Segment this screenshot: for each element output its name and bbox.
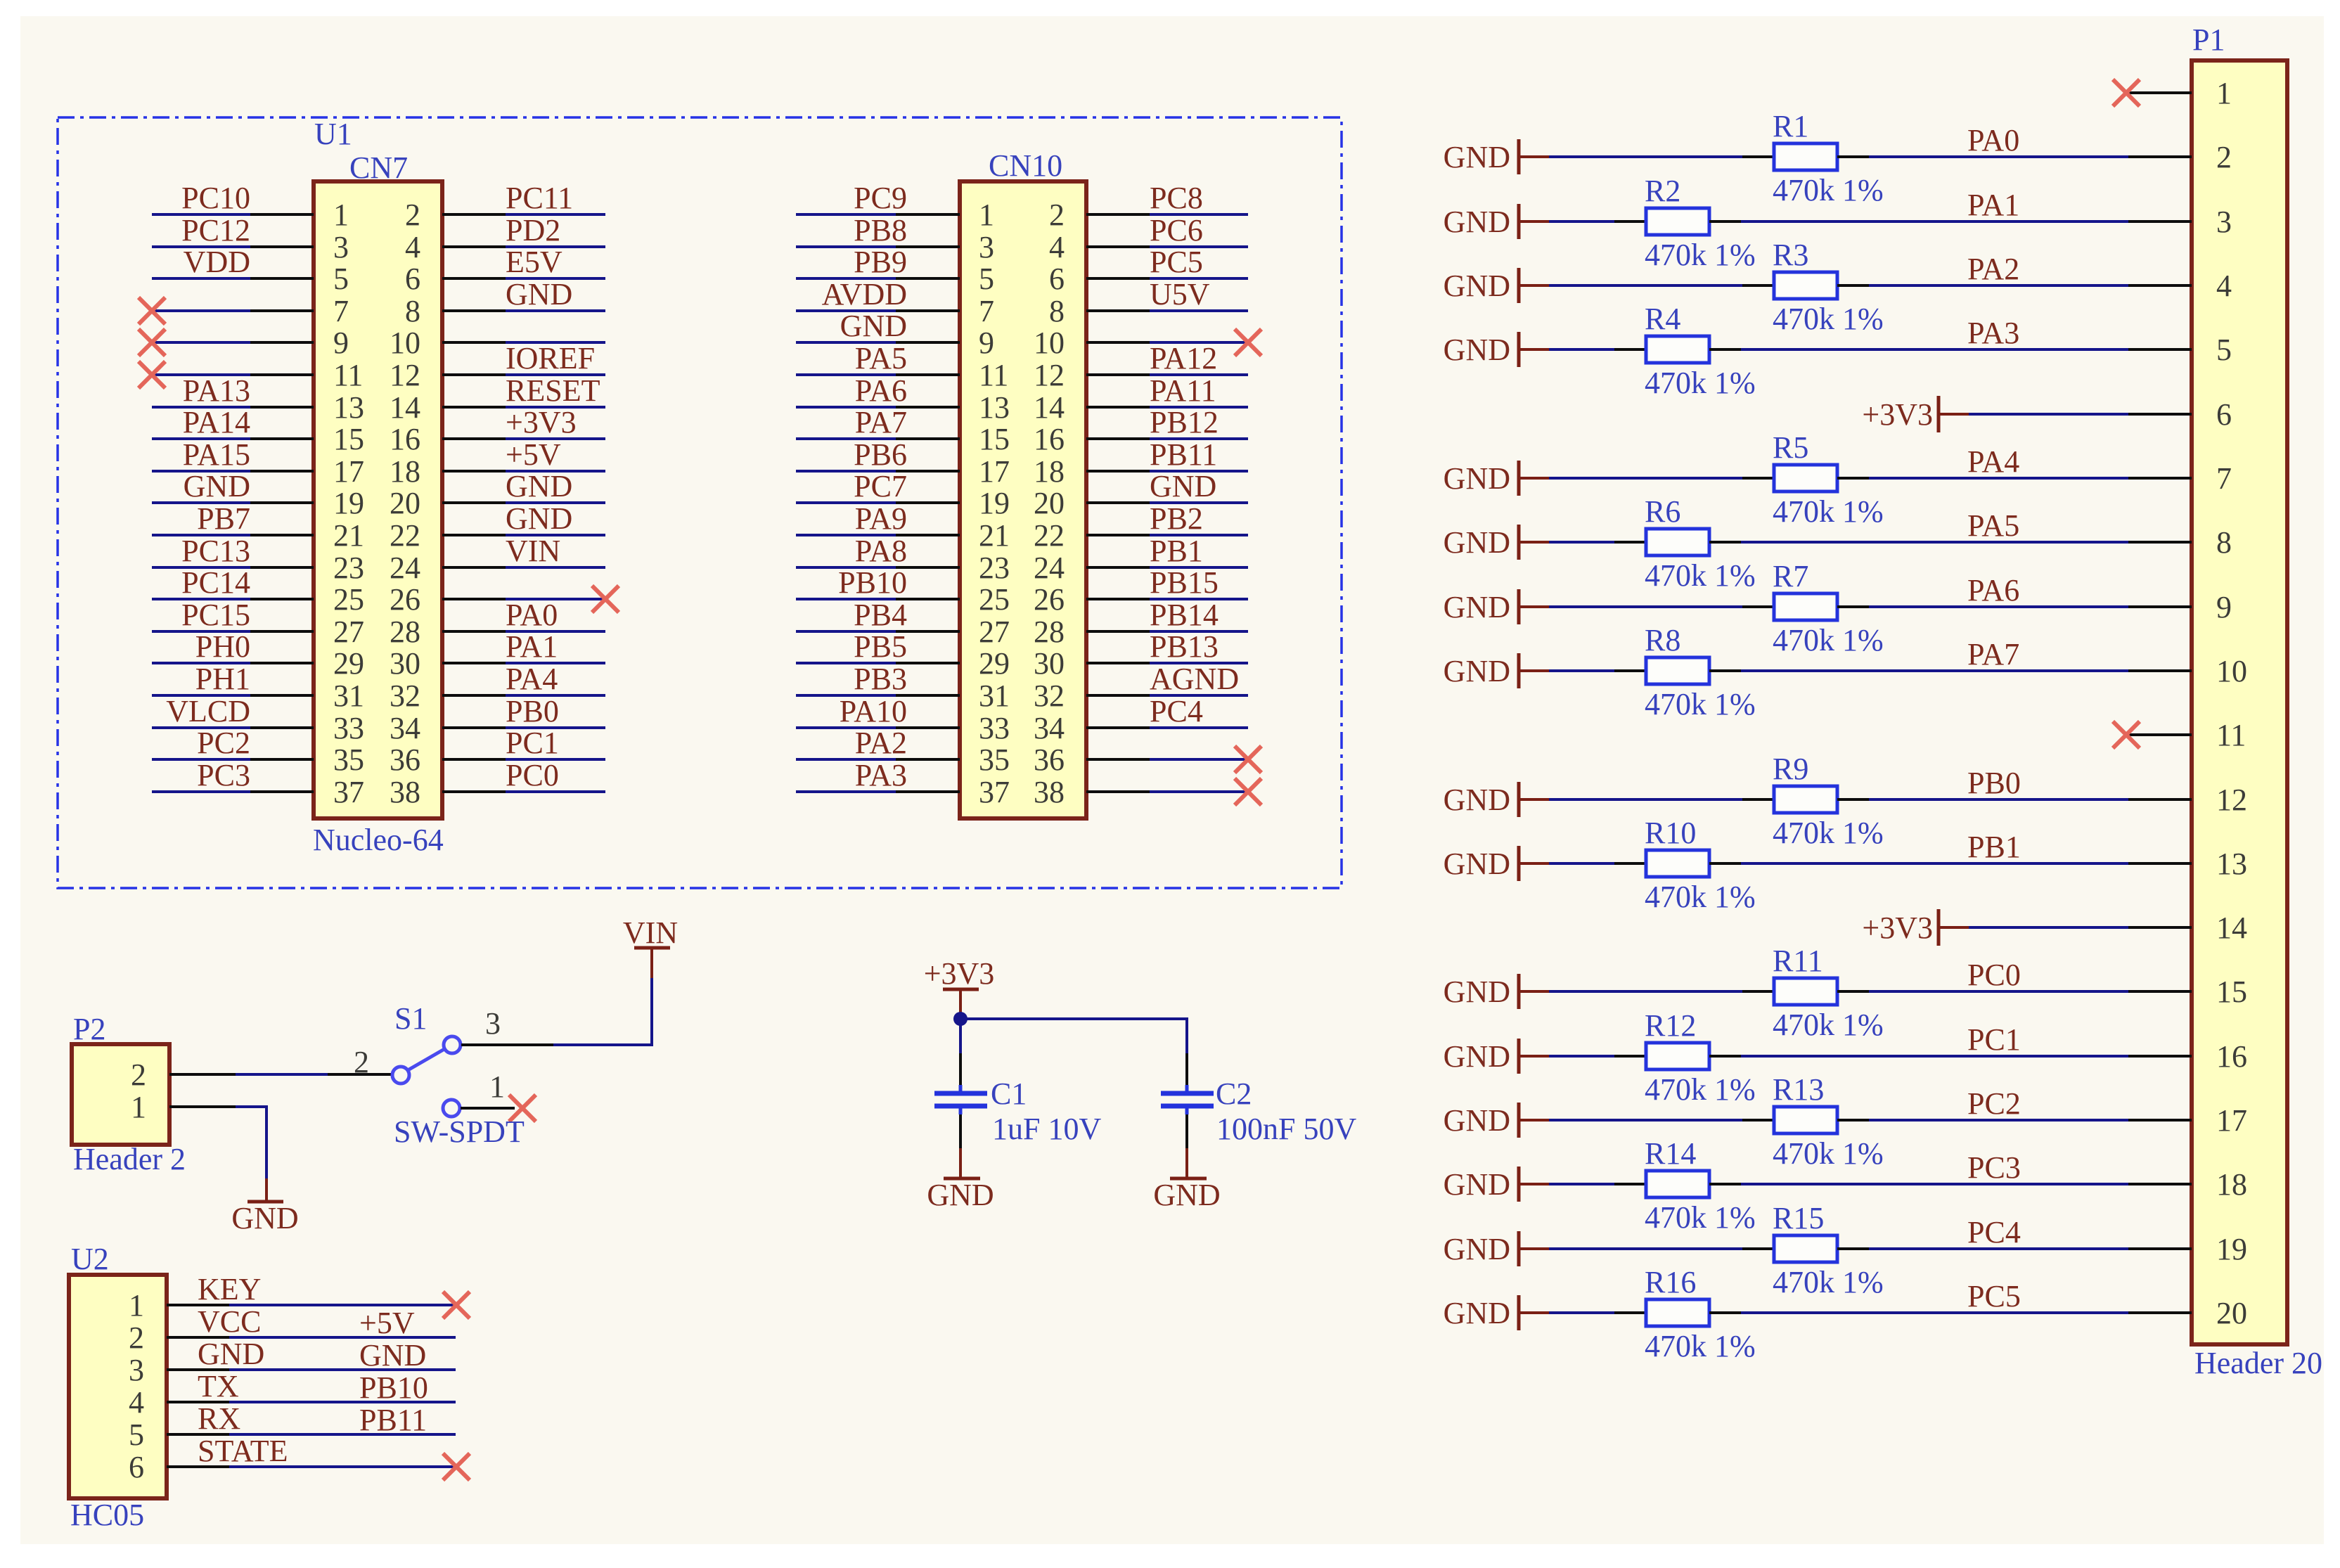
svg-text:PA11: PA11 (1150, 373, 1216, 408)
svg-text:35: 35 (979, 743, 1010, 777)
ground symbol row pin 16 (1444, 1039, 1549, 1074)
svg-text:R12: R12 (1645, 1008, 1696, 1043)
svg-text:9: 9 (333, 326, 349, 360)
CN7 pin 36 wire net PC1 (390, 726, 605, 777)
svg-text:18: 18 (1034, 454, 1065, 489)
svg-text:Header 2: Header 2 (73, 1142, 186, 1176)
svg-text:S1: S1 (394, 1001, 427, 1036)
svg-text:30: 30 (1034, 646, 1065, 681)
svg-text:U5V: U5V (1150, 277, 1210, 311)
svg-text:18: 18 (2216, 1167, 2247, 1202)
P1 pin 19 (2128, 1232, 2247, 1266)
svg-text:470k 1%: 470k 1% (1645, 366, 1756, 400)
svg-text:R9: R9 (1773, 752, 1808, 786)
svg-text:38: 38 (390, 775, 420, 809)
header P1 body (2192, 60, 2287, 1344)
svg-text:5: 5 (2216, 333, 2232, 367)
svg-text:28: 28 (390, 615, 420, 649)
power port VIN (623, 915, 678, 978)
svg-text:29: 29 (333, 646, 364, 681)
svg-text:GND: GND (506, 277, 572, 311)
svg-text:PA10: PA10 (840, 694, 907, 728)
P1 pin 10 (2128, 654, 2247, 688)
svg-text:Header 20: Header 20 (2194, 1346, 2322, 1380)
switch S1 pin 1 (n.c.) (443, 1069, 536, 1122)
CN10 pin 20 wire net GND (1034, 469, 1248, 520)
CN7 pin 23 wire net PC13 (152, 534, 364, 585)
svg-text:+3V3: +3V3 (1862, 397, 1933, 432)
svg-text:PB9: PB9 (854, 245, 907, 279)
svg-text:R2: R2 (1645, 174, 1680, 208)
svg-text:19: 19 (979, 486, 1010, 520)
svg-text:RX: RX (198, 1401, 240, 1436)
connector CN7 body (314, 181, 442, 818)
svg-text:P2: P2 (73, 1012, 105, 1046)
junction node +3V3 (953, 1012, 967, 1026)
U2 pin 2 VCC net +5V (129, 1304, 456, 1355)
svg-text:HC05: HC05 (70, 1498, 144, 1532)
svg-text:28: 28 (1034, 615, 1065, 649)
ground symbol row pin 4 (1444, 268, 1549, 303)
svg-text:27: 27 (333, 615, 364, 649)
wire R2 to P1 pin 3 net PA1 (1741, 188, 2128, 222)
svg-text:U1: U1 (314, 117, 352, 151)
svg-text:8: 8 (2216, 525, 2232, 560)
svg-text:18: 18 (390, 454, 420, 489)
svg-text:GND: GND (1444, 654, 1510, 688)
svg-text:470k 1%: 470k 1% (1773, 1265, 1884, 1299)
P1 pin 14 (2128, 911, 2247, 945)
CN7 pin 9 wire (139, 326, 349, 360)
svg-text:PA4: PA4 (1967, 444, 2019, 479)
svg-text:14: 14 (1034, 390, 1065, 425)
svg-text:20: 20 (2216, 1296, 2247, 1330)
wire GND to R14 (1549, 1183, 1614, 1185)
svg-text:R1: R1 (1773, 109, 1808, 143)
svg-text:22: 22 (1034, 518, 1065, 553)
svg-text:AGND: AGND (1150, 662, 1239, 696)
power port +3V3 at P1 pin 14 (1862, 909, 1969, 946)
P1 pin 17 (2128, 1103, 2247, 1138)
svg-text:PC7: PC7 (854, 469, 907, 503)
svg-text:470k 1%: 470k 1% (1773, 1136, 1884, 1171)
svg-text:33: 33 (979, 711, 1010, 745)
switch S1 pin 2 (common) (328, 1045, 409, 1084)
svg-text:PB0: PB0 (506, 694, 559, 728)
svg-text:19: 19 (333, 486, 364, 520)
P1 pin 5 (2128, 333, 2232, 367)
svg-text:1: 1 (131, 1090, 146, 1124)
CN10 pin 19 wire net PC7 (796, 469, 1010, 520)
svg-text:4: 4 (405, 230, 420, 264)
resistor R3 470k 1% (1742, 238, 1884, 336)
CN10 pin 34 wire net PC4 (1034, 694, 1248, 745)
svg-text:6: 6 (2216, 397, 2232, 432)
P1 pin 12 (2128, 783, 2247, 817)
U2 pin 5 RX net PB11 (129, 1401, 456, 1452)
wire R4 to P1 pin 5 net PA3 (1741, 316, 2128, 350)
svg-text:PA7: PA7 (1967, 637, 2019, 671)
ground symbol row pin 18 (1444, 1167, 1549, 1202)
svg-text:1: 1 (2216, 76, 2232, 110)
svg-text:PB12: PB12 (1150, 405, 1219, 439)
ground symbol below P2 (231, 1178, 298, 1235)
svg-text:PC1: PC1 (1967, 1022, 2021, 1057)
P1 pin 6 (2128, 397, 2232, 432)
resistor R5 470k 1% (1742, 430, 1884, 529)
CN7 pin 20 wire net GND (390, 469, 605, 520)
CN7 pin 1 wire net PC10 (152, 181, 349, 232)
svg-text:GND: GND (1444, 1039, 1510, 1074)
svg-text:GND: GND (840, 309, 907, 343)
svg-text:PH1: PH1 (195, 662, 250, 696)
svg-text:PB11: PB11 (1150, 437, 1217, 472)
ground symbol row pin 2 (1444, 139, 1549, 174)
svg-text:7: 7 (2216, 461, 2232, 496)
wire P2 pin1 to GND (236, 1107, 266, 1178)
svg-text:16: 16 (390, 422, 420, 456)
svg-text:PA6: PA6 (855, 373, 907, 408)
wire GND to R8 (1549, 669, 1614, 672)
svg-text:R11: R11 (1773, 944, 1823, 978)
svg-text:PB1: PB1 (1150, 534, 1203, 568)
P1 pin 16 (2128, 1039, 2247, 1074)
svg-text:PA5: PA5 (1967, 508, 2019, 543)
svg-text:21: 21 (333, 518, 364, 553)
wire R5 to P1 pin 7 net PA4 (1869, 444, 2128, 479)
switch S1 lever (408, 1049, 444, 1070)
svg-text:Nucleo-64: Nucleo-64 (313, 823, 444, 857)
wire GND to R13 (1549, 1119, 1742, 1122)
svg-text:GND: GND (1444, 1296, 1510, 1330)
svg-text:GND: GND (506, 501, 572, 536)
P1 pin 4 (2128, 269, 2232, 303)
svg-text:R10: R10 (1645, 816, 1696, 850)
svg-text:12: 12 (390, 358, 420, 392)
svg-text:PC5: PC5 (1967, 1279, 2021, 1313)
svg-text:32: 32 (390, 679, 420, 713)
svg-text:PB10: PB10 (359, 1370, 428, 1405)
svg-text:7: 7 (979, 294, 994, 328)
svg-text:PB5: PB5 (854, 629, 907, 664)
svg-text:R5: R5 (1773, 430, 1808, 465)
svg-text:20: 20 (1034, 486, 1065, 520)
svg-text:470k 1%: 470k 1% (1773, 173, 1884, 207)
CN10 pin 14 wire net PA11 (1034, 373, 1248, 425)
resistor R14 470k 1% (1614, 1136, 1756, 1235)
svg-text:36: 36 (1034, 743, 1065, 777)
svg-text:PC10: PC10 (181, 181, 250, 215)
CN7 pin 14 wire net RESET (390, 373, 605, 425)
wire +3V3 to C2 (960, 1019, 1187, 1053)
wire GND to R11 (1549, 990, 1742, 993)
svg-text:2: 2 (405, 198, 420, 232)
svg-text:GND: GND (1444, 1232, 1510, 1266)
resistor R11 470k 1% (1742, 944, 1884, 1042)
svg-text:R8: R8 (1645, 623, 1680, 657)
CN7 pin 37 wire net PC3 (152, 758, 364, 809)
svg-text:PC3: PC3 (1967, 1150, 2021, 1185)
svg-text:470k 1%: 470k 1% (1645, 1072, 1756, 1107)
svg-text:PA7: PA7 (855, 405, 907, 439)
power port +3V3 at P1 pin 6 (1862, 396, 1969, 432)
svg-text:3: 3 (485, 1006, 501, 1041)
ground symbol row pin 8 (1444, 525, 1549, 560)
svg-text:35: 35 (333, 743, 364, 777)
wire GND to R16 (1549, 1311, 1614, 1314)
P1 pin 11 (2128, 718, 2246, 752)
svg-text:470k 1%: 470k 1% (1645, 1200, 1756, 1235)
svg-text:PB7: PB7 (197, 501, 250, 536)
P1 pin 8 (2128, 525, 2232, 560)
CN7 pin 26 wire (390, 582, 619, 617)
resistor R10 470k 1% (1614, 816, 1756, 914)
ground below C2 (1153, 1148, 1220, 1212)
svg-text:5: 5 (333, 262, 349, 296)
svg-text:+3V3: +3V3 (506, 405, 577, 439)
svg-text:PC2: PC2 (197, 726, 250, 760)
svg-text:25: 25 (333, 582, 364, 617)
svg-text:25: 25 (979, 582, 1010, 617)
svg-text:23: 23 (979, 551, 1010, 585)
wire R8 to P1 pin 10 net PA7 (1741, 637, 2128, 671)
wire GND to R2 (1549, 220, 1614, 223)
svg-text:13: 13 (333, 390, 364, 425)
svg-text:1: 1 (979, 198, 994, 232)
svg-text:GND: GND (1444, 783, 1510, 817)
wire GND to R15 (1549, 1247, 1742, 1250)
svg-text:PB3: PB3 (854, 662, 907, 696)
resistor R6 470k 1% (1614, 494, 1756, 593)
svg-text:20: 20 (390, 486, 420, 520)
svg-text:1uF 10V: 1uF 10V (992, 1112, 1101, 1146)
U2 pin 3 GND net GND (129, 1337, 456, 1387)
resistor R13 470k 1% (1742, 1072, 1884, 1171)
svg-text:GND: GND (1444, 333, 1510, 367)
svg-text:34: 34 (390, 711, 420, 745)
CN7 pin 10 wire (390, 326, 605, 360)
ground symbol row pin 3 (1444, 204, 1549, 239)
svg-text:GND: GND (1444, 975, 1510, 1009)
svg-text:470k 1%: 470k 1% (1773, 302, 1884, 336)
svg-text:1: 1 (129, 1288, 144, 1323)
svg-text:VIN: VIN (506, 534, 560, 568)
CN7 pin 19 wire net GND (152, 469, 364, 520)
svg-text:PC13: PC13 (181, 534, 250, 568)
svg-text:PD2: PD2 (506, 213, 560, 248)
CN10 pin 5 wire net PB9 (796, 245, 994, 296)
wire GND to R10 (1549, 862, 1614, 865)
wire R16 to P1 pin 20 net PC5 (1741, 1279, 2128, 1313)
CN10 pin 25 wire net PB10 (796, 565, 1010, 617)
CN7 pin 2 wire net PC11 (405, 181, 605, 232)
wire R10 to P1 pin 13 net PB1 (1741, 830, 2128, 864)
CN10 pin 33 wire net PA10 (796, 694, 1010, 745)
svg-text:11: 11 (2216, 718, 2246, 752)
wire GND to R1 (1549, 155, 1742, 158)
svg-text:470k 1%: 470k 1% (1645, 238, 1756, 272)
svg-text:KEY: KEY (198, 1272, 261, 1306)
svg-text:VCC: VCC (198, 1304, 261, 1339)
svg-text:R4: R4 (1645, 302, 1680, 336)
svg-text:24: 24 (1034, 551, 1065, 585)
CN7 pin 38 wire net PC0 (390, 758, 605, 809)
wire +3V3 to P1 pin 6 (1969, 413, 2128, 416)
svg-text:470k 1%: 470k 1% (1645, 1329, 1756, 1363)
svg-text:PB11: PB11 (359, 1403, 427, 1437)
svg-text:470k 1%: 470k 1% (1773, 816, 1884, 850)
svg-text:PC6: PC6 (1150, 213, 1203, 248)
CN7 pin 4 wire net PD2 (405, 213, 605, 264)
svg-text:10: 10 (2216, 654, 2247, 688)
svg-text:470k 1%: 470k 1% (1645, 558, 1756, 593)
svg-text:GND: GND (231, 1201, 298, 1235)
P1 pin 2 (2128, 140, 2232, 174)
wire R11 to P1 pin 15 net PC0 (1869, 958, 2128, 992)
svg-text:PB2: PB2 (1150, 501, 1203, 536)
U2 pin 6 STATE (129, 1434, 470, 1484)
svg-text:PB13: PB13 (1150, 629, 1219, 664)
svg-text:12: 12 (1034, 358, 1065, 392)
svg-text:GND: GND (1444, 590, 1510, 624)
P1 pin 13 (2128, 847, 2247, 881)
svg-text:37: 37 (979, 775, 1010, 809)
svg-text:16: 16 (1034, 422, 1065, 456)
CN7 pin 35 wire net PC2 (152, 726, 364, 777)
svg-text:470k 1%: 470k 1% (1645, 687, 1756, 721)
svg-text:22: 22 (390, 518, 420, 553)
resistor R7 470k 1% (1742, 559, 1884, 657)
svg-text:C1: C1 (991, 1077, 1027, 1111)
svg-text:10: 10 (390, 326, 420, 360)
resistor R4 470k 1% (1614, 302, 1756, 400)
CN7 pin 32 wire net PA4 (390, 662, 605, 713)
svg-text:PA0: PA0 (1967, 123, 2019, 158)
wire GND to R7 (1549, 605, 1742, 608)
svg-text:PC11: PC11 (506, 181, 573, 215)
CN7 pin 12 wire net IOREF (390, 341, 605, 392)
svg-text:TX: TX (198, 1369, 239, 1403)
svg-text:PC0: PC0 (506, 758, 559, 792)
CN10 pin 6 wire net PC5 (1049, 245, 1248, 296)
CN7 pin 17 wire net PA15 (152, 437, 364, 489)
CN10 pin 32 wire net AGND (1034, 662, 1248, 713)
ground symbol row pin 12 (1444, 782, 1549, 817)
svg-text:3: 3 (979, 230, 994, 264)
wire R6 to P1 pin 8 net PA5 (1741, 508, 2128, 543)
svg-text:15: 15 (2216, 975, 2247, 1009)
CN7 pin 21 wire net PB7 (152, 501, 364, 553)
wire R13 to P1 pin 17 net PC2 (1869, 1086, 2128, 1121)
svg-text:16: 16 (2216, 1039, 2247, 1074)
svg-text:R7: R7 (1773, 559, 1808, 593)
svg-text:PB4: PB4 (854, 598, 907, 632)
resistor R15 470k 1% (1742, 1201, 1884, 1299)
svg-text:PC14: PC14 (181, 565, 250, 600)
svg-text:GND: GND (1444, 1167, 1510, 1202)
svg-text:PA15: PA15 (183, 437, 250, 472)
svg-text:12: 12 (2216, 783, 2247, 817)
svg-text:2: 2 (354, 1045, 369, 1079)
CN10 pin 18 wire net PB11 (1034, 437, 1248, 489)
svg-text:6: 6 (129, 1450, 144, 1484)
svg-text:5: 5 (979, 262, 994, 296)
svg-text:CN10: CN10 (989, 148, 1062, 183)
CN7 pin 27 wire net PC15 (152, 598, 364, 649)
svg-text:31: 31 (333, 679, 364, 713)
CN10 pin 23 wire net PA8 (796, 534, 1010, 585)
ground symbol row pin 13 (1444, 846, 1549, 881)
svg-text:24: 24 (390, 551, 420, 585)
svg-text:U2: U2 (71, 1242, 109, 1276)
CN10 pin 37 wire net PA3 (796, 758, 1010, 809)
svg-text:9: 9 (979, 326, 994, 360)
CN7 pin 28 wire net PA0 (390, 598, 605, 649)
CN7 pin 6 wire net E5V (405, 245, 605, 296)
ground symbol row pin 9 (1444, 589, 1549, 624)
svg-text:13: 13 (2216, 847, 2247, 881)
CN7 pin 8 wire net GND (405, 277, 605, 328)
CN10 pin 30 wire net PB13 (1034, 629, 1248, 681)
wire R15 to P1 pin 19 net PC4 (1869, 1215, 2128, 1249)
svg-text:RESET: RESET (506, 373, 600, 408)
svg-text:PC15: PC15 (181, 598, 250, 632)
CN7 pin 13 wire net PA13 (152, 373, 364, 425)
CN10 pin 31 wire net PB3 (796, 662, 1010, 713)
svg-text:PA9: PA9 (855, 501, 907, 536)
ground symbol row pin 20 (1444, 1295, 1549, 1330)
CN7 pin 7 wire (139, 294, 349, 328)
wire GND to R12 (1549, 1055, 1614, 1058)
resistor R2 470k 1% (1614, 174, 1756, 272)
svg-text:PC2: PC2 (1967, 1086, 2021, 1121)
svg-text:R6: R6 (1645, 494, 1680, 529)
svg-text:14: 14 (390, 390, 420, 425)
CN10 pin 13 wire net PA6 (796, 373, 1010, 425)
svg-text:5: 5 (129, 1418, 144, 1452)
P1 pin 15 (2128, 975, 2247, 1009)
svg-text:470k 1%: 470k 1% (1773, 623, 1884, 657)
CN7 pin 24 wire net VIN (390, 534, 605, 585)
svg-text:10: 10 (1034, 326, 1065, 360)
wire R14 to P1 pin 18 net PC3 (1741, 1150, 2128, 1185)
CN10 pin 17 wire net PB6 (796, 437, 1010, 489)
CN10 pin 8 wire net U5V (1049, 277, 1248, 328)
CN7 pin 11 wire (139, 358, 363, 392)
svg-text:GND: GND (1444, 847, 1510, 881)
ground below C1 (927, 1148, 994, 1212)
U2 pin 4 TX net PB10 (129, 1369, 456, 1420)
svg-text:8: 8 (1049, 294, 1065, 328)
svg-text:+3V3: +3V3 (924, 956, 995, 991)
svg-text:E5V: E5V (506, 245, 562, 279)
wire S1 pin3 to VIN (553, 978, 652, 1045)
svg-text:PB0: PB0 (1967, 766, 2021, 800)
wire R7 to P1 pin 9 net PA6 (1869, 573, 2128, 608)
svg-text:470k 1%: 470k 1% (1645, 880, 1756, 914)
svg-text:+5V: +5V (506, 437, 561, 472)
svg-text:PC1: PC1 (506, 726, 559, 760)
svg-text:17: 17 (979, 454, 1010, 489)
wire R12 to P1 pin 16 net PC1 (1741, 1022, 2128, 1057)
svg-text:38: 38 (1034, 775, 1065, 809)
wire GND to R4 (1549, 348, 1614, 351)
svg-text:PB1: PB1 (1967, 830, 2021, 864)
svg-text:2: 2 (2216, 140, 2232, 174)
resistor R1 470k 1% (1742, 109, 1884, 207)
svg-text:GND: GND (927, 1178, 994, 1212)
svg-text:VLCD: VLCD (166, 694, 250, 728)
